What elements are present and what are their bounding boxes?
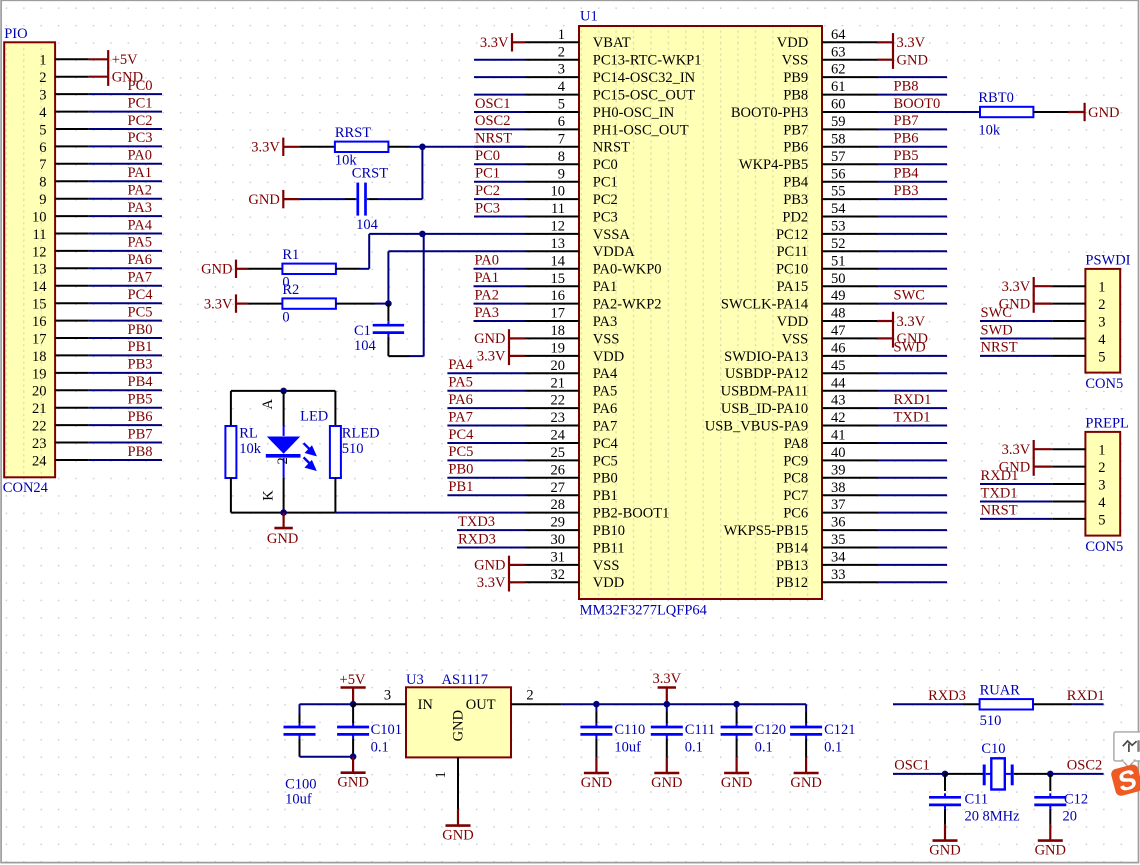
svg-text:RL: RL: [239, 426, 258, 442]
power port 3.3V at U1 pin 64: [877, 33, 926, 51]
svg-text:510: 510: [342, 441, 364, 457]
svg-text:19: 19: [32, 366, 47, 382]
svg-text:C12: C12: [1064, 791, 1088, 807]
junction rail node C111: [664, 701, 671, 708]
svg-text:PB5: PB5: [128, 392, 153, 408]
svg-text:GND: GND: [1035, 843, 1066, 859]
svg-text:1: 1: [1098, 280, 1105, 296]
PSWDI pin 4 wire net SWD: [980, 322, 1106, 348]
svg-text:59: 59: [831, 114, 846, 130]
PREPL pin 3 wire net RXD1: [980, 468, 1106, 494]
resistor R1 0: [282, 247, 336, 290]
capacitor C101 0.1: [337, 704, 402, 757]
svg-text:SWC: SWC: [894, 287, 925, 303]
capacitor CRST 104: [352, 166, 388, 234]
svg-text:28: 28: [551, 497, 566, 513]
wire R1 to VSSA line: [336, 234, 525, 269]
svg-text:GND: GND: [474, 558, 505, 574]
U1 pin 11 PC3: [474, 200, 618, 225]
svg-text:GND: GND: [248, 192, 279, 208]
svg-text:17: 17: [551, 306, 566, 322]
svg-text:3.3V: 3.3V: [477, 349, 506, 365]
svg-text:RRST: RRST: [335, 125, 371, 141]
svg-text:5: 5: [1098, 349, 1105, 365]
svg-text:61: 61: [831, 79, 846, 95]
U1 pin 39 PC8: [783, 462, 947, 486]
svg-text:PA3: PA3: [475, 305, 499, 321]
wire R2 to VDDA node: [336, 303, 389, 305]
svg-text:PA1: PA1: [475, 270, 499, 286]
svg-text:3: 3: [558, 62, 565, 78]
capacitor C111 0.1: [651, 704, 715, 757]
PIO pin 17 wire net PB0: [32, 322, 162, 348]
svg-text:RUAR: RUAR: [980, 682, 1021, 698]
svg-text:43: 43: [831, 393, 846, 409]
power port GND under LED: [267, 513, 298, 548]
svg-text:16: 16: [32, 314, 47, 330]
svg-text:PC8: PC8: [783, 471, 808, 487]
svg-text:36: 36: [831, 515, 846, 531]
svg-text:MM32F3277LQFP64: MM32F3277LQFP64: [580, 603, 708, 619]
svg-text:3.3V: 3.3V: [204, 296, 233, 312]
svg-text:VSS: VSS: [782, 331, 809, 347]
svg-text:8: 8: [39, 175, 46, 191]
svg-text:PA6: PA6: [128, 252, 152, 268]
U1 pin 5 PH0-OSC_IN: [474, 96, 675, 121]
junction LED cathode node: [280, 509, 287, 516]
U1 pin 9 PC1: [474, 166, 618, 191]
svg-text:PC10: PC10: [776, 262, 808, 278]
svg-text:6: 6: [39, 140, 46, 156]
U1 pin 23 PA7: [447, 409, 617, 434]
svg-text:48: 48: [831, 306, 846, 322]
svg-text:3.3V: 3.3V: [477, 575, 506, 591]
PIO pin 20 wire net PB4: [32, 374, 162, 400]
svg-text:PA6: PA6: [448, 392, 472, 408]
svg-text:VDD: VDD: [777, 35, 808, 51]
svg-text:104: 104: [356, 217, 379, 233]
svg-text:PA7: PA7: [128, 270, 152, 286]
svg-text:4: 4: [1098, 332, 1106, 348]
svg-text:NRST: NRST: [981, 340, 1018, 356]
wire CRST to NRST node: [368, 198, 422, 200]
svg-text:30: 30: [551, 532, 566, 548]
svg-text:VBAT: VBAT: [593, 35, 631, 51]
U1 pin 24 PC4: [447, 427, 618, 452]
svg-text:510: 510: [980, 713, 1002, 729]
capacitor C1 104: [354, 304, 404, 354]
svg-text:45: 45: [831, 358, 846, 374]
power port GND at PREPL pin 2: [999, 457, 1052, 475]
power port 3.3V for RRST: [251, 138, 300, 156]
svg-text:PA2: PA2: [128, 183, 152, 199]
power port GND at PSWDI pin 2: [999, 294, 1052, 312]
power port GND under C101: [337, 757, 368, 791]
U1 pin 13 VDDA: [525, 236, 635, 260]
svg-text:PA5: PA5: [128, 235, 152, 251]
svg-text:PC1: PC1: [475, 166, 500, 182]
wire RLED to U1 pin 28 PB2-BOOT1: [335, 512, 525, 514]
power port GND at RBT0: [1068, 103, 1120, 121]
screenshot tool orange S logo: [1110, 762, 1140, 799]
wire crystal to OSC2 node: [1014, 773, 1051, 775]
svg-text:PB13: PB13: [776, 558, 808, 574]
U3 pin 1 GND wire: [433, 757, 458, 809]
svg-text:29: 29: [551, 515, 566, 531]
svg-text:PA5: PA5: [593, 384, 617, 400]
svg-text:PC15-OSC_OUT: PC15-OSC_OUT: [593, 88, 695, 104]
svg-text:38: 38: [831, 480, 846, 496]
svg-text:PB4: PB4: [894, 166, 920, 182]
power port GND under C110: [581, 757, 612, 791]
svg-text:PC13-RTC-WKP1: PC13-RTC-WKP1: [593, 53, 702, 69]
svg-text:55: 55: [831, 184, 846, 200]
svg-text:C10: C10: [981, 741, 1005, 757]
svg-text:GND: GND: [651, 775, 682, 791]
svg-text:C101: C101: [371, 722, 402, 738]
svg-text:GND: GND: [897, 53, 928, 69]
U1 pin 53 PC12: [776, 219, 947, 243]
svg-text:PC0: PC0: [593, 157, 618, 173]
power port 3.3V at U1 pin 48: [877, 312, 926, 330]
U1 pin 44 USBDM-PA11: [721, 375, 947, 399]
svg-text:RXD3: RXD3: [458, 531, 496, 547]
U1 pin 12 VSSA: [525, 219, 630, 243]
svg-text:GND: GND: [581, 775, 612, 791]
U1 pin 58 PB6: [783, 131, 947, 156]
svg-text:27: 27: [551, 480, 566, 496]
svg-text:PA4: PA4: [448, 357, 473, 373]
svg-text:24: 24: [32, 453, 47, 469]
U1 pin 1 VBAT: [525, 27, 631, 51]
resistor R2 0: [282, 282, 336, 325]
svg-text:13: 13: [551, 236, 566, 252]
crystal C10 8MHz: [945, 741, 1020, 824]
svg-text:PB9: PB9: [783, 70, 808, 86]
svg-text:41: 41: [831, 428, 846, 444]
svg-text:2: 2: [39, 70, 46, 86]
PSWDI pin 3 wire net SWC: [980, 305, 1106, 331]
U1 pin 54 PD2: [782, 201, 947, 225]
U1 pin 35 PB14: [776, 532, 947, 556]
svg-text:3.3V: 3.3V: [897, 314, 926, 330]
svg-text:USB_VBUS-PA9: USB_VBUS-PA9: [705, 418, 808, 434]
svg-text:PB6: PB6: [783, 140, 808, 156]
U1 pin 41 PA8: [784, 428, 947, 452]
U1 pin 10 PC2: [474, 183, 618, 208]
svg-text:VSS: VSS: [782, 53, 809, 69]
PIO pin 19 wire net PB3: [32, 357, 162, 383]
capacitor C110 10uf: [580, 704, 645, 757]
svg-text:GND: GND: [451, 710, 467, 741]
junction C101 bottom node: [350, 753, 357, 760]
resistor RBT0 10k: [978, 90, 1033, 139]
power port GND at U1 pin 63: [877, 51, 928, 69]
svg-text:10uf: 10uf: [614, 740, 641, 756]
IC U1 MM32F3277LQFP64 body: [579, 9, 822, 619]
svg-text:PREPL: PREPL: [1085, 416, 1129, 432]
svg-text:RXD1: RXD1: [1067, 688, 1105, 704]
junction OSC2 node: [1047, 771, 1054, 778]
U1 pin 30 PB11: [457, 531, 625, 556]
PIO pin 23 wire net PB7: [32, 426, 162, 452]
svg-text:49: 49: [831, 288, 846, 304]
wire RBT0 to GND: [1033, 111, 1068, 113]
svg-text:33: 33: [831, 567, 846, 583]
svg-text:PC4: PC4: [128, 287, 154, 303]
svg-text:K: K: [260, 490, 276, 501]
LED D? with pins A K: [260, 391, 328, 513]
screenshot tool bubble overlay: [1114, 732, 1140, 768]
svg-text:GND: GND: [790, 775, 821, 791]
svg-text:23: 23: [32, 436, 47, 452]
PIO pin 14 wire net PA7: [32, 270, 162, 296]
wire VDDA vertical: [388, 251, 525, 303]
svg-text:RXD1: RXD1: [894, 392, 932, 408]
svg-text:PA0: PA0: [128, 148, 152, 164]
net label RXD1 wire from RUAR: [1033, 688, 1105, 704]
svg-text:20: 20: [32, 384, 47, 400]
U1 pin 52 PC11: [776, 236, 947, 260]
PIO pin 12 wire net PA5: [32, 235, 162, 261]
net label OSC2 wire: [1050, 758, 1103, 774]
svg-text:PA1: PA1: [128, 165, 152, 181]
svg-text:SWDIO-PA13: SWDIO-PA13: [724, 349, 808, 365]
svg-text:PA8: PA8: [784, 436, 808, 452]
svg-text:20: 20: [551, 358, 566, 374]
svg-text:PB3: PB3: [128, 357, 153, 373]
svg-text:+5V: +5V: [340, 672, 366, 688]
U1 pin 31 VSS: [525, 550, 619, 574]
svg-text:PB1: PB1: [593, 488, 618, 504]
svg-text:62: 62: [831, 62, 846, 78]
svg-text:3: 3: [1098, 477, 1105, 493]
power port GND at U1 pin 47: [877, 329, 928, 347]
svg-text:GND: GND: [999, 459, 1030, 475]
resistor RRST 10k: [335, 125, 389, 168]
U1 pin 28 PB2-BOOT1: [525, 497, 669, 521]
U1 pin 34 PB13: [776, 550, 947, 574]
svg-text:53: 53: [831, 219, 846, 235]
svg-text:PA2: PA2: [475, 287, 499, 303]
U1 pin 3 PC14-OSC32_IN: [474, 62, 696, 86]
svg-text:1: 1: [39, 53, 46, 69]
svg-text:PC14-OSC32_IN: PC14-OSC32_IN: [593, 70, 696, 86]
junction VSSA node: [419, 231, 426, 238]
svg-text:PB7: PB7: [128, 426, 153, 442]
power port 3.3V at U1 pin 1: [480, 33, 525, 51]
power port +5V: [340, 672, 366, 704]
U1 pin 36 WKPS5-PB15: [724, 515, 947, 539]
svg-text:12: 12: [551, 219, 566, 235]
svg-text:4: 4: [1098, 495, 1106, 511]
svg-text:10uf: 10uf: [285, 792, 312, 808]
svg-text:40: 40: [831, 445, 846, 461]
svg-text:C11: C11: [965, 791, 989, 807]
svg-text:22: 22: [32, 419, 47, 435]
svg-text:0.1: 0.1: [824, 740, 842, 756]
svg-text:1: 1: [433, 771, 449, 778]
net label OSC1 wire: [893, 758, 945, 774]
svg-text:VSS: VSS: [593, 331, 620, 347]
svg-text:52: 52: [831, 236, 846, 252]
svg-text:PB8: PB8: [128, 444, 153, 460]
PSWDI pin 1 wire: [1052, 280, 1105, 296]
junction +5V node: [350, 701, 357, 708]
junction rail node C110: [593, 701, 600, 708]
svg-text:35: 35: [831, 532, 846, 548]
svg-text:PC3: PC3: [128, 130, 153, 146]
PIO pin 8 wire net PA1: [39, 165, 162, 191]
svg-text:56: 56: [831, 166, 846, 182]
svg-text:PA15: PA15: [776, 279, 808, 295]
net label RXD3 wire to RUAR: [893, 688, 980, 704]
svg-text:PD2: PD2: [782, 209, 808, 225]
svg-text:PC1: PC1: [593, 175, 618, 191]
svg-text:10k: 10k: [239, 441, 262, 457]
U1 pin 15 PA1: [474, 270, 618, 295]
PIO pin 10 wire net PA3: [32, 200, 162, 226]
U1 pin 17 PA3: [474, 305, 618, 330]
svg-text:5: 5: [39, 122, 46, 138]
U1 pin 45 USBDP-PA12: [725, 358, 947, 382]
svg-text:2: 2: [275, 457, 291, 464]
svg-text:VDD: VDD: [593, 575, 624, 591]
svg-text:R1: R1: [282, 247, 299, 263]
svg-text:3: 3: [1098, 314, 1105, 330]
svg-text:PC3: PC3: [593, 209, 618, 225]
svg-text:44: 44: [831, 375, 846, 391]
wire NRST node down to CRST: [421, 147, 423, 199]
PSWDI pin 5 wire net NRST: [980, 340, 1106, 366]
svg-text:14: 14: [32, 279, 47, 295]
power port GND at U1 pin 18: [474, 329, 525, 347]
junction LED anode node: [280, 388, 287, 395]
svg-text:NRST: NRST: [593, 140, 630, 156]
svg-text:PA7: PA7: [593, 418, 617, 434]
svg-text:46: 46: [831, 341, 846, 357]
svg-text:21: 21: [551, 375, 566, 391]
svg-text:PB5: PB5: [894, 148, 919, 164]
U1 pin 4 PC15-OSC_OUT: [474, 79, 695, 103]
svg-text:PC4: PC4: [448, 427, 474, 443]
svg-text:PB1: PB1: [128, 339, 153, 355]
svg-text:PA3: PA3: [593, 314, 617, 330]
wire RRST to NRST node: [388, 146, 525, 148]
svg-text:PA7: PA7: [448, 409, 472, 425]
svg-text:PB10: PB10: [593, 523, 625, 539]
svg-text:USBDM-PA11: USBDM-PA11: [721, 384, 809, 400]
svg-text:A: A: [260, 399, 276, 410]
svg-text:PB7: PB7: [783, 122, 808, 138]
capacitor C120 0.1: [721, 704, 786, 757]
svg-text:34: 34: [831, 550, 846, 566]
svg-text:NRST: NRST: [475, 131, 512, 147]
svg-text:51: 51: [831, 253, 846, 269]
svg-text:PC2: PC2: [475, 183, 500, 199]
U1 pin 8 PC0: [474, 148, 618, 173]
junction OSC1 node: [942, 771, 949, 778]
svg-text:OSC1: OSC1: [894, 758, 929, 774]
svg-text:23: 23: [551, 410, 566, 426]
svg-text:TXD1: TXD1: [981, 485, 1018, 501]
svg-text:25: 25: [551, 445, 566, 461]
connector PIO CON24 body: [3, 26, 55, 496]
svg-text:PA1: PA1: [593, 279, 617, 295]
svg-text:BOOT0: BOOT0: [894, 96, 941, 112]
PREPL pin 1 wire: [1052, 443, 1105, 459]
svg-text:BOOT0-PH3: BOOT0-PH3: [731, 105, 808, 121]
U1 pin 25 PC5: [447, 444, 617, 469]
PIO pin 24 wire net PB8: [32, 444, 162, 470]
U1 pin 29 PB10: [457, 514, 625, 539]
svg-text:PB1: PB1: [448, 479, 473, 495]
svg-text:54: 54: [831, 201, 846, 217]
PIO pin 9 wire net PA2: [39, 183, 162, 209]
PREPL pin 4 wire net TXD1: [980, 485, 1106, 511]
svg-text:GND: GND: [442, 828, 473, 844]
svg-text:37: 37: [831, 497, 846, 513]
svg-text:GND: GND: [721, 775, 752, 791]
svg-text:PC11: PC11: [776, 244, 808, 260]
PIO pin 18 wire net PB1: [32, 339, 162, 365]
svg-text:63: 63: [831, 44, 846, 60]
svg-text:WKPS5-PB15: WKPS5-PB15: [724, 523, 809, 539]
svg-text:PH0-OSC_IN: PH0-OSC_IN: [593, 105, 675, 121]
svg-text:PB11: PB11: [593, 540, 625, 556]
svg-text:11: 11: [551, 201, 565, 217]
svg-text:64: 64: [831, 27, 846, 43]
svg-text:21: 21: [32, 401, 47, 417]
U3 pin 2 wire: [511, 687, 561, 704]
svg-text:RXD3: RXD3: [928, 688, 966, 704]
power port 3.3V for R2: [204, 294, 248, 312]
svg-text:8MHz: 8MHz: [983, 808, 1021, 824]
svg-text:VDD: VDD: [777, 314, 808, 330]
U1 pin 21 PA5: [447, 375, 617, 400]
svg-text:PA0: PA0: [475, 253, 499, 269]
svg-text:PA4: PA4: [128, 217, 153, 233]
power port GND for CRST: [248, 190, 300, 208]
junction VDDA node at R2: [385, 300, 392, 307]
U1 pin 18 VSS: [525, 323, 619, 347]
svg-text:PA4: PA4: [593, 366, 618, 382]
U1 pin 62 PB9: [783, 62, 947, 86]
U3 pin 3 wire: [353, 687, 406, 704]
svg-text:57: 57: [831, 149, 846, 165]
U1 pin 56 PB4: [783, 166, 947, 191]
capacitor C100 10uf: [284, 704, 317, 807]
power port 3.3V at PREPL pin 1: [1002, 440, 1053, 458]
wire +5V rail left: [300, 703, 354, 705]
power port 3.3V at PSWDI pin 1: [1002, 277, 1053, 295]
svg-text:7: 7: [39, 157, 46, 173]
svg-text:PC4: PC4: [593, 436, 619, 452]
svg-text:20: 20: [965, 808, 980, 824]
U1 pin 59 PB7: [783, 113, 947, 138]
IC U3 AS1117 regulator: [406, 672, 511, 757]
svg-text:IN: IN: [418, 697, 434, 713]
U1 pin 63 VSS: [782, 44, 877, 68]
svg-text:9: 9: [558, 166, 565, 182]
svg-text:PC7: PC7: [783, 488, 808, 504]
svg-text:PB6: PB6: [128, 409, 153, 425]
resistor RUAR 510: [980, 682, 1033, 729]
svg-text:LED: LED: [300, 409, 328, 425]
svg-text:PA3: PA3: [128, 200, 152, 216]
U1 pin 57 WKP4-PB5: [739, 148, 947, 173]
power port GND at U3 pin 1: [442, 810, 473, 844]
